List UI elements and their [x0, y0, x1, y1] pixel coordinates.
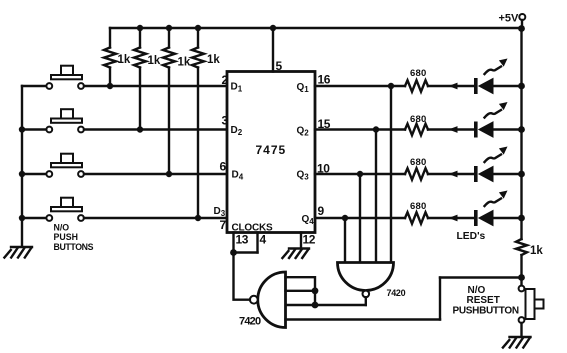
svg-text:7475: 7475 [256, 143, 287, 157]
junction dot bus/row3 [19, 171, 25, 177]
wire Q2 to R6 [315, 128, 405, 130]
wire right bus upper [520, 28, 522, 239]
junction dot Q4 branch [342, 215, 348, 221]
wire LED3 to right bus [493, 173, 522, 175]
wire pin13-pin4 bridge [234, 251, 258, 253]
wire gate2 input B (from Q2) [375, 130, 377, 263]
junction dot bus/R2 [137, 25, 143, 31]
wire U3 output down [365, 297, 367, 305]
wire U2 input 2 [286, 290, 316, 292]
wire U2 output to clocks [234, 253, 250, 300]
pushbutton S2 [46, 109, 84, 132]
svg-text:1k: 1k [118, 54, 131, 66]
svg-text:9: 9 [318, 204, 325, 218]
junction dot bus/R3 [166, 25, 172, 31]
svg-text:7420: 7420 [387, 288, 406, 298]
wire R8 to LED4 [428, 217, 475, 219]
wire U2 input 1 [286, 277, 316, 305]
svg-text:+5V: +5V [499, 13, 520, 25]
wire row1 bus to S1 [22, 85, 47, 87]
wire Q1 to R5 [315, 85, 405, 87]
wire row4 bus to S4 [22, 217, 47, 219]
resistor R4 1k [192, 28, 220, 218]
junction dot R4/row4 [195, 215, 201, 221]
svg-text:1k: 1k [207, 54, 220, 66]
junction dot bus/row2 [19, 126, 25, 132]
wire row1 S1 to 7475 pin 2 [84, 85, 227, 87]
current arrow row3 [449, 171, 458, 178]
wire row2 bus to S2 [22, 128, 47, 130]
svg-text:1k: 1k [530, 245, 543, 257]
svg-text:680: 680 [410, 157, 426, 168]
wire top +5V bus [110, 27, 522, 29]
pushbutton S4 [46, 198, 84, 221]
wire R6 to LED2 [428, 128, 475, 130]
resistor R9 1k (right) [516, 239, 543, 286]
junction dot R3/row3 [166, 171, 172, 177]
resistor R3 1k [163, 28, 191, 174]
nand gate U3 7420 (4-input, pointing down) [338, 263, 406, 298]
LED D2 [474, 102, 508, 138]
wire U2 input 4 (reset line) [286, 318, 441, 320]
wire gate2 input C (from Q3) [359, 174, 361, 263]
wire LED1 to right bus [493, 85, 522, 87]
junction dot bus/R4 [195, 25, 201, 31]
svg-text:N/O: N/O [54, 223, 70, 233]
svg-text:1k: 1k [178, 56, 191, 68]
svg-text:BUTTONS: BUTTONS [54, 242, 94, 252]
pin 13 wire [232, 233, 234, 253]
wire R5 to LED1 [428, 85, 475, 87]
svg-text:1k: 1k [148, 55, 161, 67]
junction dot bus/row4 [19, 215, 25, 221]
svg-text:2: 2 [222, 73, 229, 87]
LED D1 [474, 59, 508, 95]
svg-text:680: 680 [410, 201, 426, 212]
junction dot Q1 branch [388, 83, 394, 89]
IC U1 7475 [227, 72, 315, 233]
wire LED2 to right bus [493, 128, 522, 130]
pushbutton S1 [46, 66, 84, 89]
svg-text:12: 12 [303, 233, 316, 247]
wire Q3 to R7 [315, 173, 405, 175]
junction dot U2 in3 [312, 302, 319, 309]
junction dot LED2/bus [518, 126, 525, 133]
junction dot reset node [518, 274, 525, 281]
junction dot Q2 branch [373, 126, 379, 132]
pin 12 wire [300, 233, 302, 248]
wire U3 output to U2 inputs [286, 304, 366, 306]
current arrow row1 [449, 83, 458, 90]
svg-text:6: 6 [220, 160, 227, 174]
wire row3 S3 to 7475 pin 6 [84, 173, 227, 175]
junction dot Q3 branch [357, 171, 363, 177]
svg-text:13: 13 [236, 233, 249, 247]
svg-text:D3: D3 [214, 206, 226, 218]
wire reset node horizontal [440, 276, 522, 278]
resistor R5 680 [405, 68, 428, 92]
junction dot bus/pin5 [270, 25, 276, 31]
pushbutton S3 [46, 154, 84, 177]
+5V terminal [499, 13, 526, 29]
svg-text:3: 3 [222, 114, 229, 128]
svg-text:7: 7 [220, 218, 227, 232]
pin 5 wire [272, 28, 274, 72]
current arrow row2 [449, 126, 458, 133]
junction dot LED1/bus [518, 83, 525, 90]
ground (pin 12) [282, 249, 309, 259]
nand gate U2 7420 (pointing left) [239, 272, 286, 328]
svg-text:5: 5 [276, 59, 283, 73]
resistor R1 1k [104, 28, 131, 86]
junction dot R2/row2 [137, 126, 143, 132]
ground (reset) [503, 337, 531, 348]
wire row3 bus to S3 [22, 173, 47, 175]
junction dot LED4/bus [518, 215, 525, 222]
resistor R6 680 [405, 114, 428, 135]
wire gate2 input A (from Q1) [390, 86, 392, 263]
svg-text:PUSHBUTTON: PUSHBUTTON [453, 305, 519, 316]
resistor R2 1k [134, 28, 161, 130]
svg-text:PUSH: PUSH [54, 232, 78, 242]
current arrow row4 [449, 215, 458, 222]
LED D3 [474, 147, 508, 183]
resistor R7 680 [405, 157, 428, 180]
svg-text:680: 680 [410, 114, 426, 125]
svg-text:4: 4 [260, 233, 267, 247]
resistor R8 680 [405, 201, 428, 224]
wire LED4 to right bus [493, 217, 522, 219]
junction dot R1/row1 [107, 83, 113, 89]
svg-text:LED's: LED's [457, 231, 486, 242]
wire Q4 to R8 [315, 217, 405, 219]
junction dot clocks [230, 249, 237, 256]
label N/O PUSH BUTTONS [54, 223, 94, 253]
wire row4 S4 to 7475 pin 7 [84, 217, 227, 219]
ground (left bus) [4, 247, 32, 258]
pushbutton S5 (reset) [519, 286, 544, 323]
wire S5 to ground [520, 323, 522, 337]
label N/O RESET PUSHBUTTON [453, 285, 519, 316]
svg-text:7420: 7420 [239, 316, 261, 328]
junction dot +5V on bus [518, 25, 525, 32]
svg-text:680: 680 [410, 68, 426, 79]
wire reset riser [439, 278, 441, 320]
LED D4 [474, 191, 508, 227]
wire gate2 input D (from Q4) [344, 218, 346, 263]
wire row2 S2 to 7475 pin 3 [84, 128, 227, 130]
wire left bus [21, 86, 23, 247]
wire R7 to LED3 [428, 173, 475, 175]
svg-text:16: 16 [318, 73, 331, 87]
pin 4 wire [256, 233, 258, 253]
junction dot LED3/bus [518, 171, 525, 178]
junction dot U2 in2 [312, 287, 319, 294]
